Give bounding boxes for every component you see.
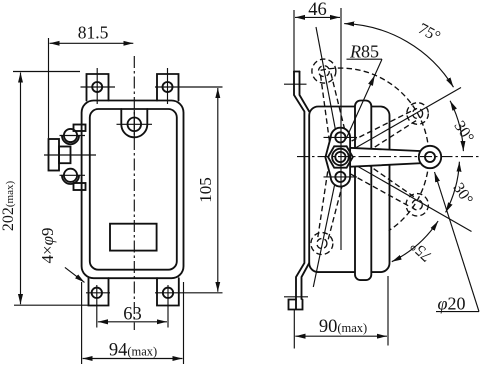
dimension 90 extension left bbox=[293, 309, 295, 349]
dimension 46 extension left bbox=[293, 10, 295, 72]
body inner outline bbox=[90, 109, 177, 270]
dimension arc 75deg lower bbox=[392, 221, 438, 262]
bottom-right mounting tab bbox=[157, 278, 179, 305]
top center boss crosshair bbox=[117, 110, 153, 138]
plunger column bbox=[355, 101, 371, 281]
mounting bracket foot bbox=[289, 300, 303, 310]
hub lower screw slot bbox=[324, 176, 358, 178]
vertical thin centerline through pivot bbox=[340, 8, 342, 250]
svg-text:81.5: 81.5 bbox=[78, 23, 109, 43]
thin line lever down-left position centerline bbox=[313, 157, 340, 288]
hub upper screw slot bbox=[324, 136, 358, 138]
label 4x phi9 bbox=[38, 228, 57, 264]
mounting bracket outer profile bbox=[294, 72, 304, 310]
pivot circle outer bbox=[332, 149, 349, 166]
top-right mounting tab bbox=[157, 74, 179, 101]
upper terminal washer arc bbox=[62, 136, 79, 145]
svg-text:63: 63 bbox=[123, 305, 142, 325]
dimension 202 extension top bbox=[13, 71, 80, 73]
top-left mounting tab bbox=[87, 74, 109, 101]
R85 arrow on locus arc bbox=[368, 74, 377, 86]
dimension arc 30deg lower bbox=[446, 162, 460, 213]
dashed roller 30deg-up position bbox=[407, 103, 429, 125]
lower terminal block bbox=[74, 183, 86, 190]
roller outer bbox=[419, 146, 441, 168]
svg-text:105: 105 bbox=[196, 177, 215, 203]
svg-text:46: 46 bbox=[308, 0, 327, 20]
bottom-right tab hole crosshair bbox=[155, 285, 223, 328]
thin line lever 30deg-down direction bbox=[341, 157, 472, 232]
top-right tab hole bbox=[163, 82, 173, 92]
phi20 leader bbox=[435, 172, 480, 312]
svg-text:R85: R85 bbox=[349, 42, 379, 62]
hub upper screw bbox=[335, 132, 345, 142]
thin line lever 30deg-up direction bbox=[341, 88, 462, 157]
svg-text:75°: 75° bbox=[415, 20, 443, 46]
dimension 81.5 extension line bbox=[48, 38, 50, 138]
dashed lever outline up-left position bbox=[320, 72, 348, 149]
dimension arc 30deg upper bbox=[450, 101, 463, 151]
label 4x phi9 leader bbox=[65, 267, 85, 282]
terminal screw head bbox=[49, 139, 60, 171]
pivot hexagon nut bbox=[328, 146, 353, 167]
dashed roller 30deg-down position bbox=[406, 194, 428, 216]
bottom-left tab hole crosshair bbox=[86, 285, 110, 328]
dimension 94 line bbox=[83, 358, 183, 360]
dimension 90 extension right bbox=[387, 276, 389, 346]
upper terminal screw slot bbox=[60, 135, 86, 137]
R85 underline bbox=[347, 58, 383, 60]
svg-text:30°: 30° bbox=[449, 180, 476, 208]
lower terminal washer arc bbox=[62, 176, 79, 185]
lower terminal screw bbox=[64, 169, 77, 182]
mounting bracket bottom tick bbox=[284, 296, 308, 298]
svg-text:202(max): 202(max) bbox=[0, 181, 17, 232]
text 30deg lower bbox=[449, 180, 476, 208]
dimension 81.5 line bbox=[50, 42, 134, 44]
text 75deg lower bbox=[407, 237, 435, 265]
bottom-right tab hole bbox=[163, 288, 173, 298]
dashed lever outline 30deg-up position bbox=[344, 111, 417, 161]
top-left tab hole bbox=[92, 82, 102, 92]
top center boss bbox=[121, 109, 147, 124]
top-left tab hole centerlines bbox=[81, 68, 116, 104]
dashed lever outline 30deg-down position bbox=[342, 154, 414, 206]
dimension arc 75deg upper bbox=[344, 24, 453, 88]
roller inner bbox=[425, 152, 435, 162]
svg-text:90(max): 90(max) bbox=[319, 317, 367, 337]
switch body (side view) bbox=[309, 107, 389, 273]
dimension 105 line bbox=[217, 88, 219, 292]
vertical dash-dot centerline of front view bbox=[133, 56, 135, 330]
label window rectangle bbox=[110, 224, 157, 251]
bottom-left tab hole bbox=[92, 288, 102, 298]
svg-text:4×φ9: 4×φ9 bbox=[38, 228, 57, 264]
dimension 202 line bbox=[20, 73, 22, 305]
terminal centerline bbox=[44, 154, 96, 156]
dashed roller down-left position bbox=[311, 233, 333, 255]
horizontal dash-dot centerline bbox=[297, 156, 481, 158]
thin line lever up-left position centerline bbox=[316, 27, 341, 157]
dimension 202(max) text bbox=[0, 181, 17, 232]
mounting bracket inner profile bbox=[300, 72, 310, 300]
svg-text:75°: 75° bbox=[407, 237, 435, 265]
svg-text:φ20: φ20 bbox=[438, 294, 466, 314]
svg-text:30°: 30° bbox=[450, 118, 477, 146]
dimension 46 line bbox=[295, 16, 340, 18]
top center boss arc bbox=[121, 124, 147, 137]
mounting bracket top edge bbox=[294, 71, 300, 73]
R85 leader bbox=[346, 59, 382, 139]
extension line 105 top bbox=[155, 86, 223, 88]
pivot circle inner bbox=[335, 152, 345, 162]
phi20 underline bbox=[436, 311, 479, 313]
dashed lever outline down-left position bbox=[318, 163, 347, 240]
dimension 202 extension bottom bbox=[14, 304, 89, 306]
terminal screw shaft bbox=[59, 147, 71, 164]
dimension 94 extension lines bbox=[82, 282, 184, 364]
svg-text:94(max): 94(max) bbox=[109, 341, 157, 361]
dashed roller up-left position bbox=[312, 59, 336, 83]
bottom-left mounting tab bbox=[89, 278, 109, 305]
upper terminal block bbox=[74, 125, 86, 132]
hub lower screw bbox=[335, 172, 345, 182]
lever hub plate bbox=[325, 128, 350, 187]
text 30deg upper bbox=[450, 118, 477, 146]
lower terminal screw slot bbox=[60, 174, 86, 176]
top center boss hole bbox=[128, 118, 142, 132]
mounting bracket top tick bbox=[284, 83, 307, 85]
dimension 90 line bbox=[295, 335, 387, 337]
dimension 63 line bbox=[98, 321, 167, 323]
dimension 105 text bbox=[196, 177, 215, 203]
dashed locus arc of roller centres bbox=[321, 68, 429, 231]
top-right tab hole centerline vertical bbox=[167, 68, 169, 104]
text 75deg upper bbox=[415, 20, 443, 46]
body outer outline bbox=[82, 101, 184, 279]
upper terminal screw bbox=[64, 129, 77, 142]
lever arm bbox=[349, 148, 425, 167]
